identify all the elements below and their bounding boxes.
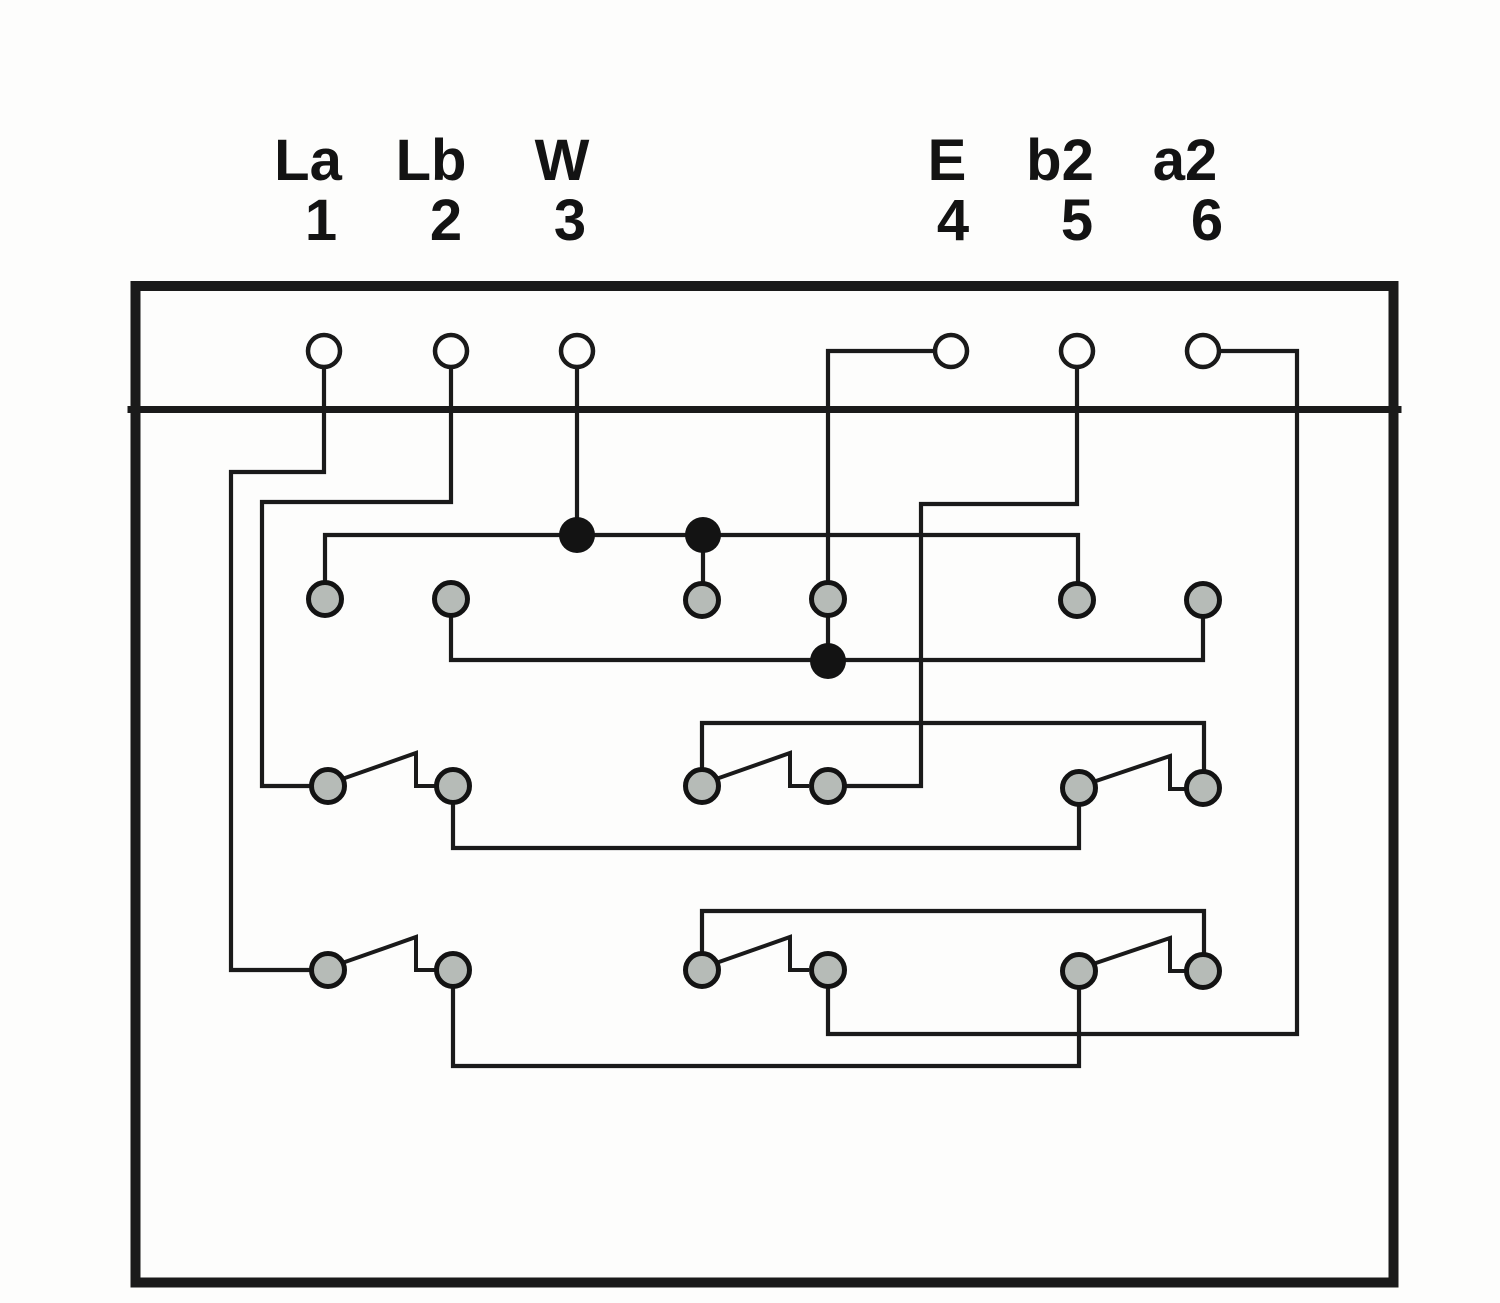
wire: terminal 6 (a2) to bottom-center switch right contact xyxy=(828,351,1297,1034)
terminal strip separator line xyxy=(131,406,1398,413)
switch S4 right contact xyxy=(437,954,470,987)
switch S5 left contact xyxy=(686,954,719,987)
wire: stub from bus node B to contact 3 xyxy=(701,535,705,599)
svg-text:W: W xyxy=(535,128,590,193)
svg-text:b2: b2 xyxy=(1026,128,1094,193)
terminal 2 circle xyxy=(435,335,467,367)
wire: terminal 2 (Lb) to middle-left switch left contact xyxy=(262,352,451,786)
junction node at W bus and terminal 3 xyxy=(559,517,595,553)
switch S3 right contact xyxy=(1187,772,1220,805)
svg-text:5: 5 xyxy=(1061,188,1093,253)
wire: contact bus row (y=535) from contact 1 stub to contact 5 xyxy=(325,535,1078,600)
svg-text:Lb: Lb xyxy=(396,128,467,193)
junction node on lower bus at terminal 4 wire xyxy=(810,643,846,679)
svg-text:1: 1 xyxy=(305,188,337,253)
contact 2 (row 1) xyxy=(435,583,468,616)
switch lever S4 (bottom-left) xyxy=(345,937,433,970)
switch S2 left contact xyxy=(686,770,719,803)
switch lever S3 (middle-right) xyxy=(1096,756,1186,789)
wire: terminal 4 (E) down through contact 4 to junction xyxy=(828,351,933,661)
switch lever S5 (bottom-center) xyxy=(719,937,807,970)
wire: bottom-center switch left contact bracket to bottom-right switch right contact xyxy=(702,911,1204,971)
switch S1 left contact xyxy=(312,770,345,803)
switch S6 right contact xyxy=(1187,955,1220,988)
terminal 4 circle xyxy=(935,335,967,367)
svg-text:La: La xyxy=(274,128,342,193)
svg-text:6: 6 xyxy=(1191,188,1223,253)
enclosure box outline xyxy=(136,286,1394,1283)
svg-text:E: E xyxy=(928,128,967,193)
wire: middle-left switch right contact to middle-right switch left contact xyxy=(453,786,1079,848)
wire: terminal 3 (W) down to bus node xyxy=(575,352,579,535)
switch lever S1 (middle-left) xyxy=(345,753,433,786)
switch S4 left contact xyxy=(312,954,345,987)
contact 3 (row 1) xyxy=(686,584,719,617)
wire: bottom-left switch right contact to bottom-right switch left contact xyxy=(453,970,1079,1066)
wire: terminal 1 (La) to bottom-left switch left contact xyxy=(231,352,328,970)
switch S2 right contact xyxy=(812,770,845,803)
switch lever S6 (bottom-right) xyxy=(1096,938,1186,971)
switch S3 left contact xyxy=(1063,772,1096,805)
contact 5 (row 1) xyxy=(1061,584,1094,617)
terminal 1 circle xyxy=(308,335,340,367)
contact 6 (row 1) xyxy=(1187,584,1220,617)
svg-text:a2: a2 xyxy=(1153,128,1218,193)
switch S6 left contact xyxy=(1063,955,1096,988)
svg-text:2: 2 xyxy=(430,188,462,253)
switch lever S2 (middle-center) xyxy=(719,753,807,786)
junction node on bus above contact 3 xyxy=(685,517,721,553)
terminal 3 circle xyxy=(561,335,593,367)
contact 4 (row 1) xyxy=(812,583,845,616)
terminal 6 circle xyxy=(1187,335,1219,367)
wire: lower bus (y=660) contact 2 to contact 6 xyxy=(451,599,1203,660)
switch S1 right contact xyxy=(437,770,470,803)
wire: middle-center switch left contact bracket to middle-right switch right contact xyxy=(702,723,1204,788)
wire: terminal 5 (b2) to middle-center switch right contact xyxy=(828,352,1077,786)
svg-text:4: 4 xyxy=(937,188,969,253)
svg-text:3: 3 xyxy=(554,188,586,253)
switch S5 right contact xyxy=(812,954,845,987)
contact 1 (row 1) xyxy=(309,583,342,616)
terminal 5 circle xyxy=(1061,335,1093,367)
